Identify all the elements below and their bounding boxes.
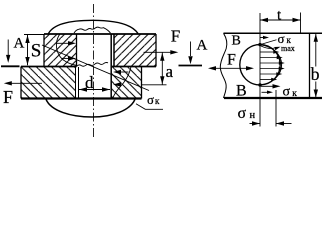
svg-text:A: A (14, 36, 25, 52)
svg-text:F: F (227, 52, 236, 69)
svg-text:σ: σ (283, 85, 291, 100)
svg-text:B: B (236, 83, 247, 100)
svg-text:max: max (281, 44, 295, 53)
svg-text:d: d (85, 73, 94, 92)
svg-text:a: a (166, 62, 174, 81)
svg-text:н: н (250, 110, 256, 121)
svg-text:σ: σ (147, 92, 154, 107)
svg-text:b: b (311, 64, 320, 84)
svg-text:σ: σ (238, 105, 247, 122)
svg-text:F: F (171, 26, 180, 45)
svg-text:F: F (3, 87, 13, 107)
svg-text:A: A (197, 38, 208, 54)
svg-text:к: к (292, 89, 297, 99)
svg-text:S: S (31, 41, 42, 62)
svg-text:к: к (155, 96, 160, 106)
svg-text:B: B (232, 34, 241, 49)
